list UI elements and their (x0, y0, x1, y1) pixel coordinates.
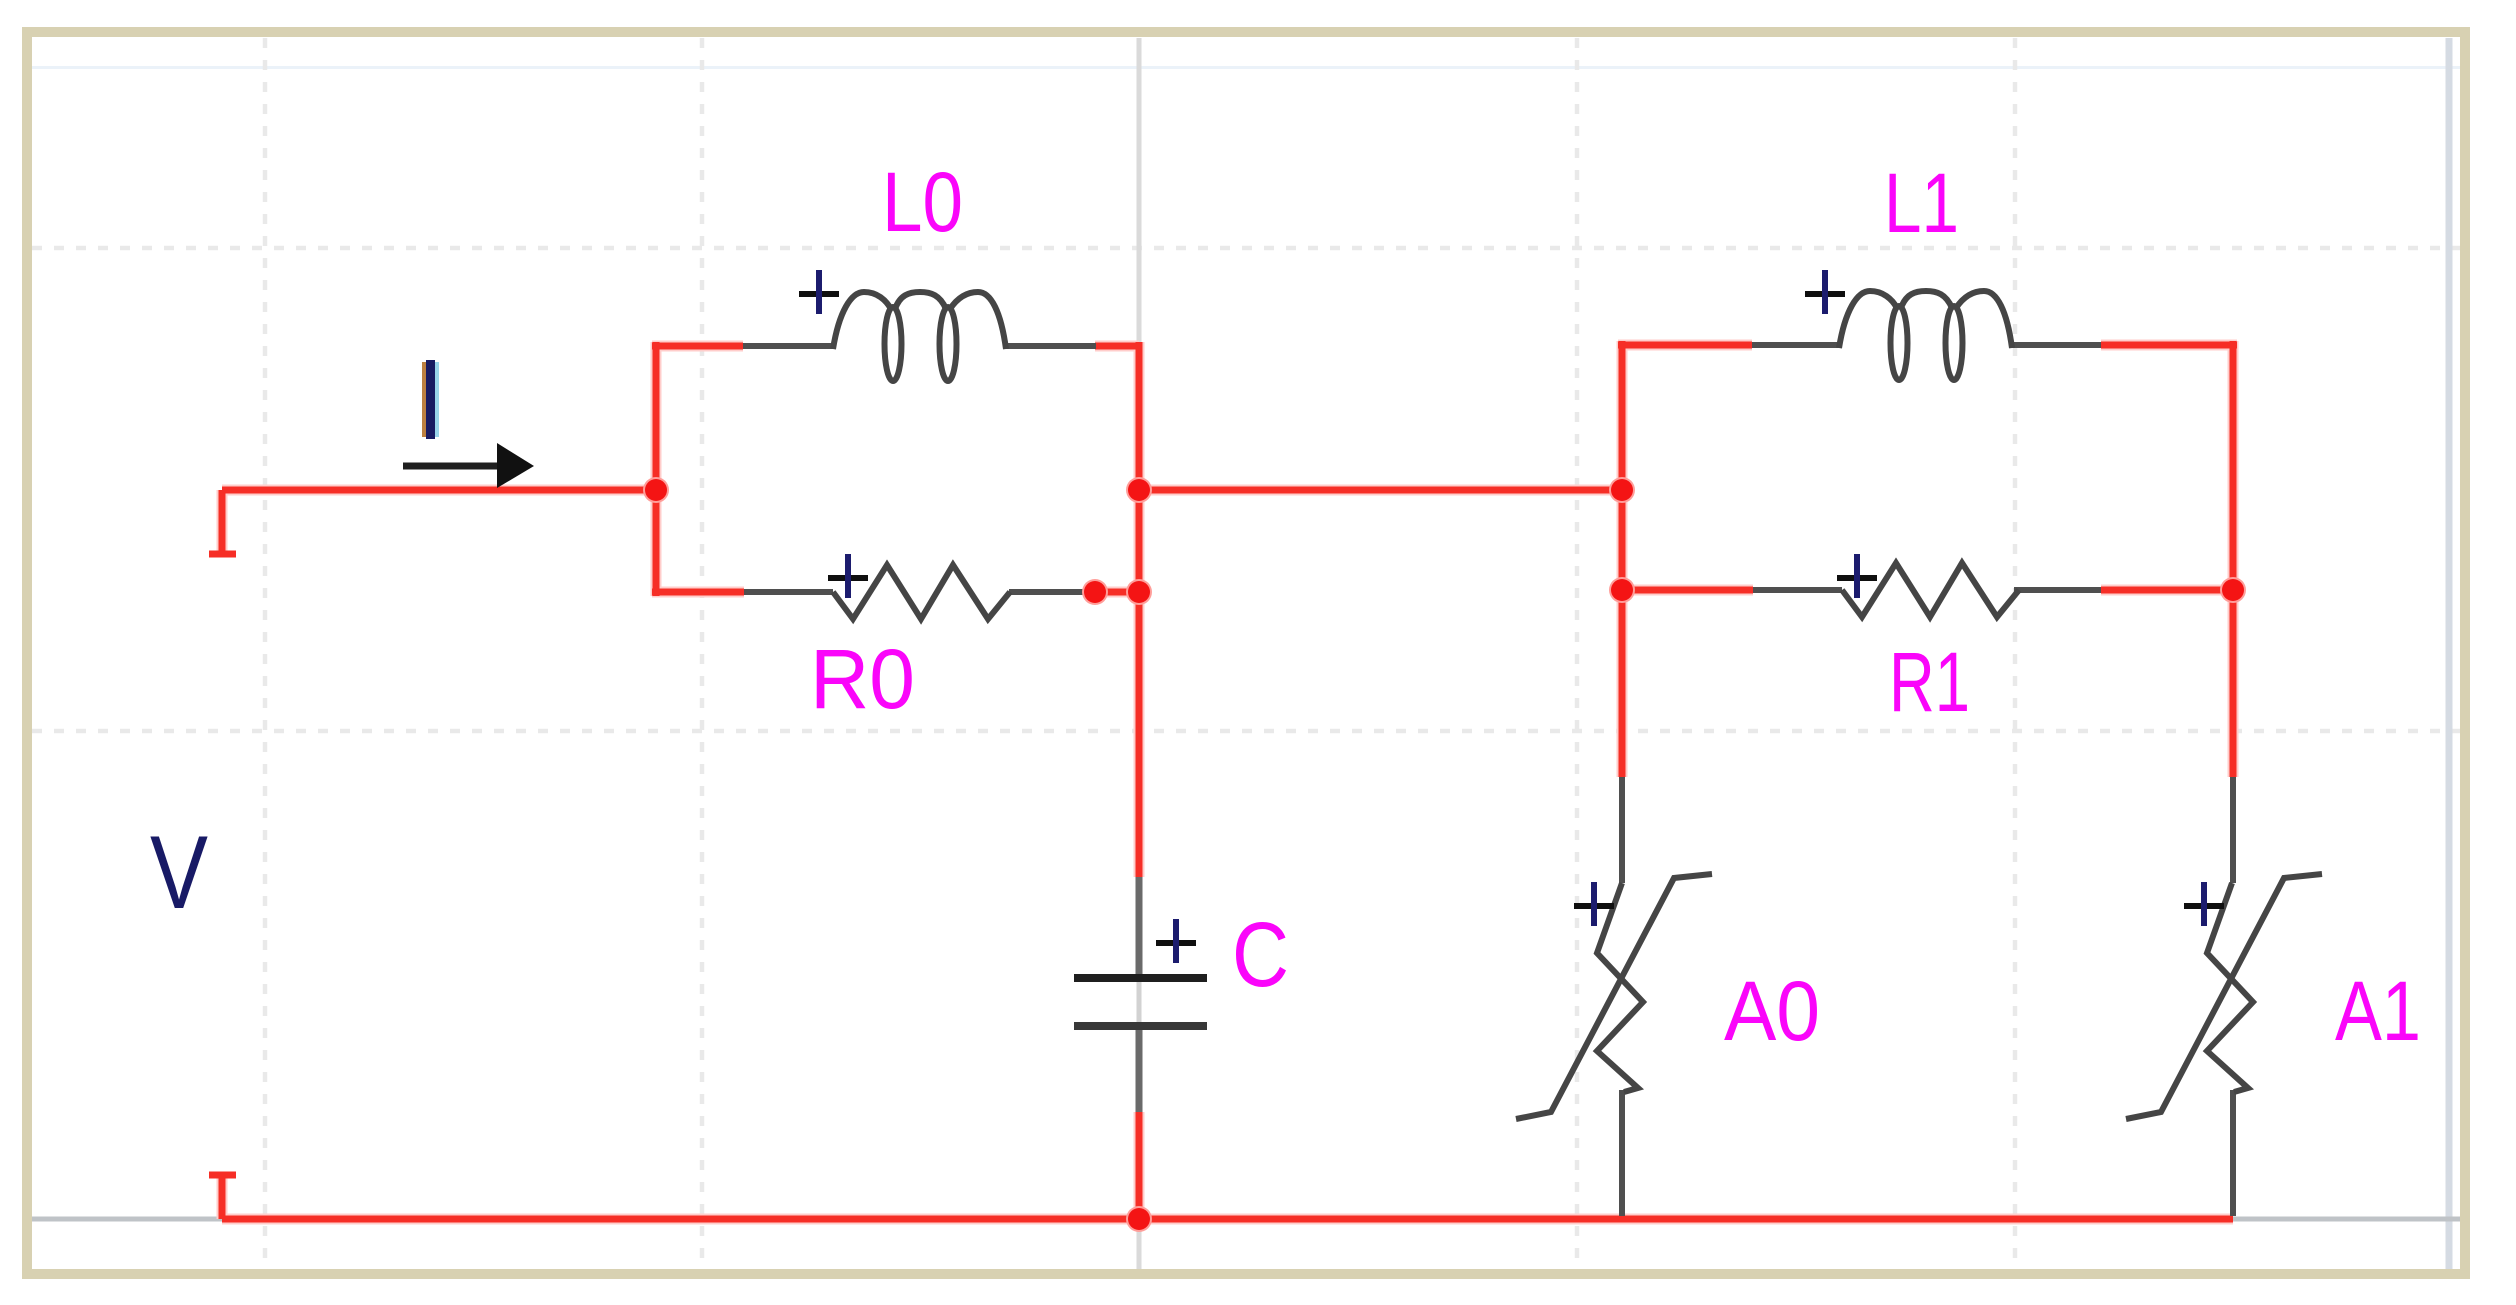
svg-text:A1: A1 (2335, 964, 2421, 1058)
svg-text:L0: L0 (882, 155, 963, 249)
svg-text:L1: L1 (1884, 156, 1959, 250)
svg-text:C: C (1232, 904, 1289, 1006)
svg-text:R1: R1 (1889, 635, 1970, 729)
svg-text:R0: R0 (810, 632, 915, 726)
svg-text:A0: A0 (1724, 964, 1820, 1058)
svg-text:V: V (150, 815, 208, 931)
